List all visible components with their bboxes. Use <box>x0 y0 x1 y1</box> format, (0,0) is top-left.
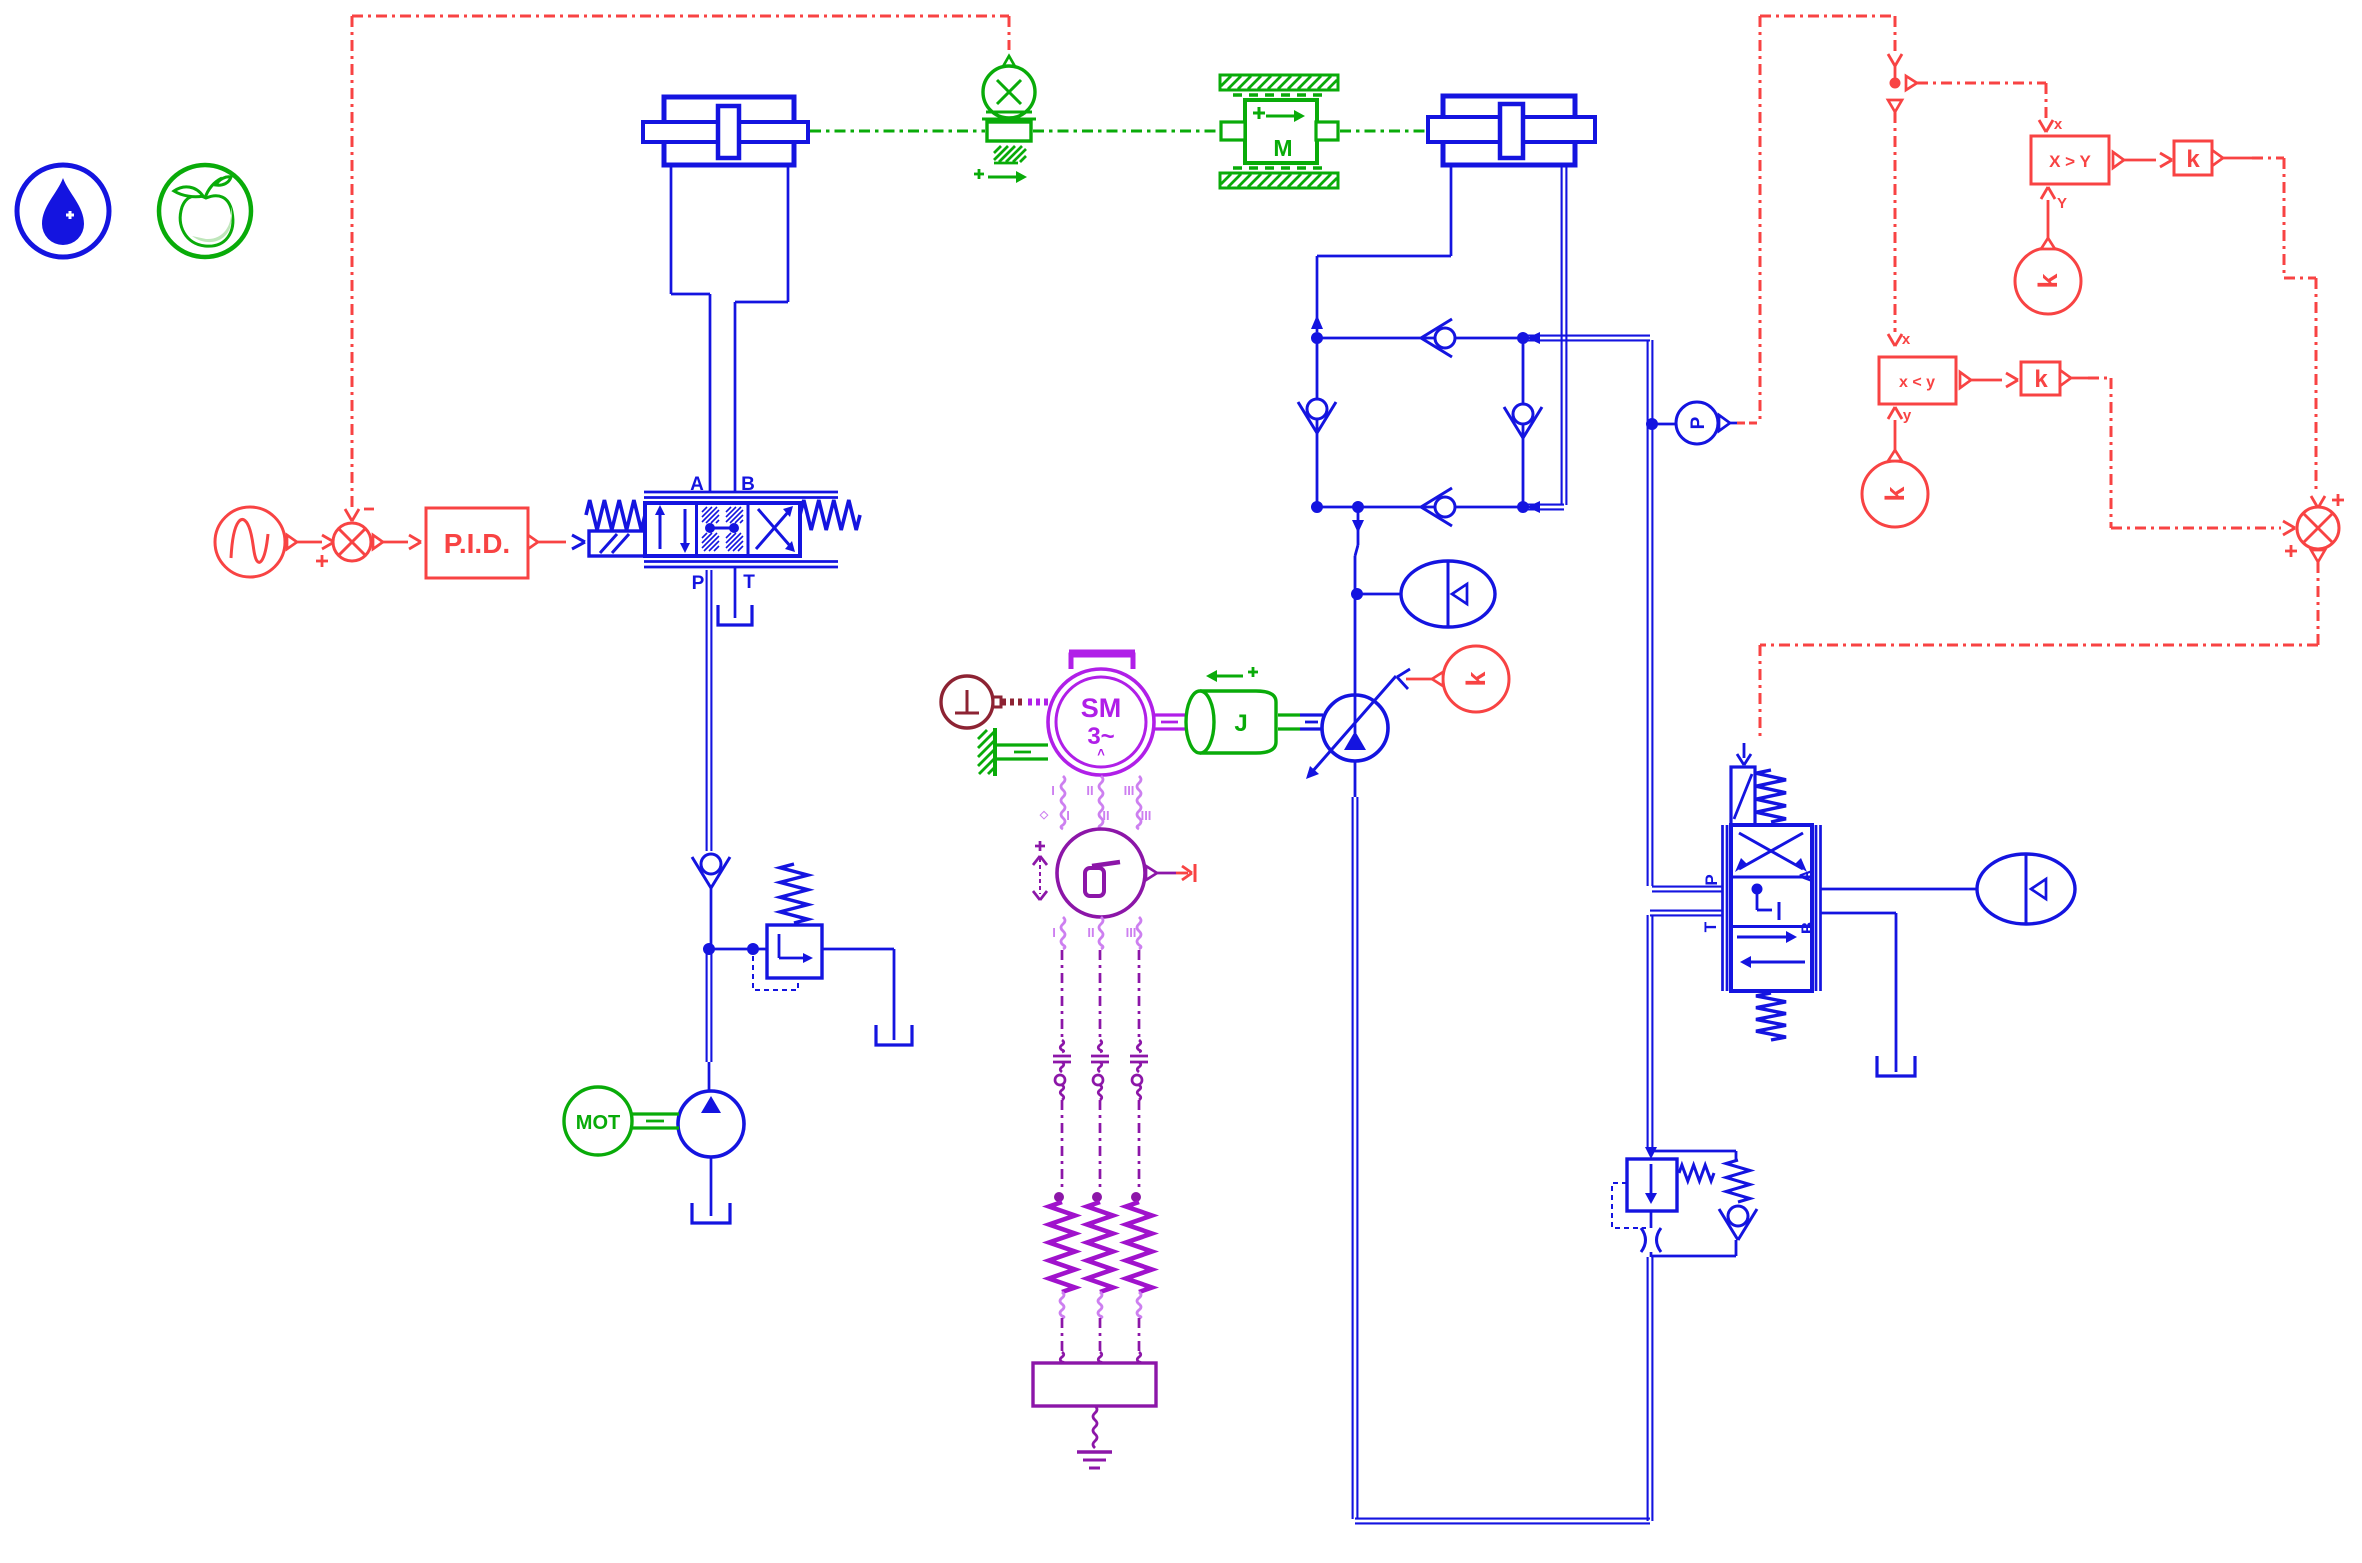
pump P1 (fixed displacement) <box>678 1091 744 1157</box>
tank at servo valve T port <box>718 605 752 625</box>
inertia J <box>1200 691 1276 753</box>
svg-text:I: I <box>1066 808 1070 823</box>
breaker 1 <box>1060 1040 1064 1052</box>
svg-text:SM: SM <box>1081 693 1122 723</box>
junction node pump outlet <box>704 944 715 955</box>
svg-text:˄: ˄ <box>1097 745 1105 760</box>
constant k source K2 <box>2015 248 2081 314</box>
svg-text:k: k <box>2186 146 2200 173</box>
wire K3 to y input <box>1894 420 1897 450</box>
wire feedback into summer (arrow) <box>345 509 352 521</box>
svg-text:P: P <box>1702 874 1721 885</box>
servo valve centre cell (closed centre) <box>702 507 707 512</box>
pipe pump bottom (double) <box>1354 761 1357 797</box>
phase dash 1 to breaker <box>1061 950 1064 1040</box>
svg-text:III: III <box>1126 925 1137 940</box>
pipe P port prop valve <box>1652 886 1722 888</box>
orifice (variable restrictor) <box>1641 1228 1646 1252</box>
check valve CV1 above pump <box>692 857 711 888</box>
port triangle junction down <box>1888 100 1902 112</box>
cylinder C1 chamber outline <box>670 165 673 294</box>
pipe junction down to pump (double) <box>706 952 708 1062</box>
plus sign at summer input <box>316 560 328 563</box>
wire feedback dash drop to sensor <box>1008 16 1011 50</box>
accumulator ACC1 <box>1401 561 1495 627</box>
pipe cylinder C2 B-side (double) <box>1561 165 1563 505</box>
svg-text:III: III <box>1124 783 1135 798</box>
accumulator ACC2 <box>1977 854 2075 924</box>
tank at relief valve outlet <box>876 1025 912 1045</box>
shaft motor to inertia <box>1154 713 1186 716</box>
mass M right port <box>1316 122 1338 140</box>
check valve CVb bottom rail <box>1421 488 1452 507</box>
torque sensor (maroon) <box>941 676 993 728</box>
wire bridge to variable pump <box>1357 507 1360 545</box>
node bridge top-left <box>1312 333 1323 344</box>
cylinder C2 chamber outline A-side <box>1450 165 1453 256</box>
resistor R1 <box>1055 1193 1064 1202</box>
comparator x<y box <box>1879 357 1956 404</box>
multiplier (red) <box>2297 507 2339 549</box>
wire into pump P1 <box>708 1062 711 1092</box>
svg-text:x < y: x < y <box>1899 374 1935 391</box>
svg-text:k: k <box>1880 486 1910 502</box>
flow control valve body <box>1627 1159 1677 1211</box>
converter sigma circle <box>1057 829 1145 917</box>
mass M upper guide wall <box>1220 75 1338 90</box>
shaft dash sensor to mass <box>1033 130 1219 133</box>
port triangle PID output <box>528 535 538 549</box>
cylinder C2 barrel <box>1443 96 1575 165</box>
position sensor + direction arrow <box>974 173 984 176</box>
servo valve top rail <box>644 491 838 494</box>
gain k setting (red) for pump <box>1443 646 1509 712</box>
port triangle x<y output <box>1960 372 1971 388</box>
mass M body <box>1245 100 1317 163</box>
prop valve top spring <box>1756 770 1786 822</box>
position sensor X input triangle <box>1001 56 1017 70</box>
wire PID to servo valve <box>538 541 566 544</box>
position sensor slider <box>987 122 1031 141</box>
breaker 2 <box>1098 1040 1102 1052</box>
port triangle summer output <box>373 535 383 549</box>
port triangle k output (upper) <box>2212 150 2223 166</box>
wire X>Y to gain k <box>2124 159 2156 162</box>
wire A-line valve to cylinder1 <box>709 294 712 492</box>
minus sign at summer feedback <box>364 508 374 511</box>
gain k box (upper) <box>2174 141 2212 175</box>
port triangle sigma output <box>1146 866 1157 880</box>
relief valve RV1 pilot dashed <box>753 956 798 990</box>
direction arrow above J <box>1214 675 1243 678</box>
svg-text:B: B <box>1798 922 1817 934</box>
cylinder C1 barrel <box>664 97 794 165</box>
pipe P-line down (double) <box>706 570 708 851</box>
constant k source K3 <box>1862 461 1928 527</box>
plus sign multiplier left <box>2285 550 2297 553</box>
svg-text:P.I.D.: P.I.D. <box>444 528 510 559</box>
pipe bottom return line (double) <box>1355 1518 1650 1520</box>
pipe return riser (double) <box>1647 1257 1649 1521</box>
servo valve right cell crossed arrows <box>756 511 789 549</box>
port triangle k output <box>1432 672 1443 686</box>
wire feedback dash vertical x=352 <box>351 16 354 508</box>
wire k to pump swash <box>1406 678 1432 681</box>
bypass check valve branch <box>1651 1150 1736 1153</box>
wire sigma output to signal end <box>1157 872 1176 875</box>
port triangle multiplier output <box>2311 550 2325 562</box>
prop valve top cell crossed arrows <box>1739 833 1803 869</box>
wire k to multiplier (upper path) <box>2223 157 2252 160</box>
wire B port to tank <box>1821 912 1896 915</box>
port triangle P sensor output <box>1719 415 1730 431</box>
spring right of servo valve <box>800 500 860 530</box>
prop valve bottom spring <box>1756 993 1786 1040</box>
wire pilot arrow into prop valve <box>1743 743 1746 758</box>
mass M lower guide wall <box>1220 173 1338 188</box>
flow control inlet arrow <box>1645 1147 1657 1159</box>
check valve CVt top rail <box>1421 319 1452 338</box>
svg-text:II: II <box>1086 783 1093 798</box>
phase dash 3 to busbar <box>1138 1318 1141 1352</box>
icon mechanical (apple) badge <box>159 165 251 257</box>
solenoid box servo valve <box>589 531 645 556</box>
phase line 2 below sigma <box>1099 917 1103 949</box>
tank at pump suction <box>692 1203 730 1223</box>
wire summer to PID <box>383 541 408 544</box>
svg-text:x: x <box>1902 331 1911 348</box>
svg-text:k: k <box>1461 671 1491 687</box>
node red junction <box>1890 78 1900 88</box>
position sensor ground hatch <box>994 146 1001 153</box>
prop valve body <box>1731 825 1812 991</box>
svg-text:◇: ◇ <box>1039 809 1049 821</box>
resistor R3 <box>1132 1193 1141 1202</box>
flow control spring <box>1679 1165 1714 1181</box>
svg-text:k: k <box>2034 366 2048 393</box>
wire junction to relief valve <box>709 948 767 951</box>
summing junction J1 <box>333 523 371 561</box>
svg-text:X > Y: X > Y <box>2049 152 2091 171</box>
position sensor X circle <box>983 66 1035 118</box>
svg-text:I: I <box>1052 925 1056 940</box>
relief valve RV1 body <box>767 925 822 978</box>
synchronous motor SM top bracket <box>1071 655 1133 669</box>
ground (green) motor stator <box>993 728 997 776</box>
cylinder C1 rod <box>643 122 808 142</box>
wire A port to accumulator <box>1821 888 1977 891</box>
node bridge bottom-right <box>1518 502 1529 513</box>
servo valve body <box>645 503 800 556</box>
phase line 1 below sigma <box>1061 917 1065 949</box>
busbar (neutral) box <box>1033 1363 1156 1406</box>
svg-text:T: T <box>743 572 755 593</box>
wire T-line to tank <box>734 567 737 618</box>
cylinder C1 piston <box>718 106 739 158</box>
prop valve centre cell <box>1752 884 1762 894</box>
node pressure sensor tap <box>1647 419 1658 430</box>
wire red net riser x=1760 <box>1759 16 1762 421</box>
node pump riser <box>1353 502 1364 513</box>
svg-text:Y: Y <box>2057 195 2067 212</box>
prop valve bottom cell arrows <box>1737 936 1788 939</box>
servo valve left cell arrows <box>659 513 662 549</box>
wire bridge top rail <box>1317 337 1523 340</box>
svg-text:II: II <box>1102 808 1109 823</box>
phase line 3 motor to converter <box>1137 776 1141 829</box>
port triangle K2 output <box>2041 238 2055 249</box>
wire multiplier to valve pilot <box>2317 562 2320 645</box>
node bridge bottom-left <box>1312 502 1323 513</box>
servo valve bottom rail <box>644 560 838 563</box>
breaker 3 <box>1137 1040 1141 1052</box>
svg-text:T: T <box>1701 921 1720 932</box>
icon hydraulic (water drop) badge <box>17 165 109 257</box>
wire sine to summer <box>297 541 322 544</box>
svg-text:A: A <box>690 474 704 495</box>
svg-text:I: I <box>1051 783 1055 798</box>
phase dash 1 to busbar <box>1061 1318 1064 1352</box>
svg-text:x: x <box>2054 116 2063 133</box>
port triangle k output (lower) <box>2060 370 2071 386</box>
spring left of servo valve <box>586 500 645 530</box>
wire bridge bottom rail <box>1317 506 1523 509</box>
flow control pilot dashed <box>1612 1183 1646 1228</box>
svg-text:y: y <box>1903 407 1912 424</box>
signal source (sine) W1 <box>215 507 285 577</box>
svg-text:II: II <box>1087 925 1094 940</box>
wire K2 to Y input <box>2047 200 2050 238</box>
mass M left port <box>1221 122 1245 140</box>
wire pump suction <box>710 1157 713 1216</box>
electrical ground symbol <box>1077 1450 1112 1453</box>
wire red net drop to junction <box>1894 16 1897 52</box>
electric motor MOT <box>564 1087 632 1155</box>
phase dash 3 to breaker <box>1138 950 1141 1040</box>
check valve CVl left branch <box>1298 402 1317 433</box>
wire P sensor to red net <box>1730 422 1737 425</box>
controller P.I.D. box <box>426 508 528 578</box>
plus sign multiplier top <box>2332 499 2344 502</box>
wire bridge left branch <box>1316 338 1319 507</box>
shaft dashed sensor to motor <box>1002 699 1026 706</box>
displacement indicator beside sigma <box>1035 845 1045 848</box>
node accumulator tee <box>1352 589 1363 600</box>
pipe T port prop valve <box>1650 910 1722 912</box>
phase dash 2 to breaker <box>1099 950 1102 1040</box>
prop valve right rail <box>1815 825 1818 991</box>
tank at prop valve B port <box>1877 1056 1915 1076</box>
prop valve left rail <box>1721 825 1724 991</box>
shaft J to variable pump <box>1278 713 1300 716</box>
gain k box (lower) <box>2021 362 2060 395</box>
port triangle sine output <box>287 535 297 549</box>
mass M sliding contact dashes <box>1233 93 1325 96</box>
port triangle K3 output <box>1888 450 1902 461</box>
check valve CVm middle branch <box>1504 407 1523 438</box>
svg-text:B: B <box>741 474 755 495</box>
position sensor mounting bars <box>986 111 1032 114</box>
wire bridge middle branch <box>1522 338 1525 507</box>
svg-text:III: III <box>1141 808 1152 823</box>
prop valve solenoid box <box>1731 767 1755 825</box>
wire busbar to ground <box>1093 1406 1097 1448</box>
svg-text:P: P <box>692 573 705 594</box>
wire tee to accumulator <box>1357 593 1402 596</box>
wire x<y to gain k <box>1971 379 2002 382</box>
wire relief valve to tank <box>822 948 894 951</box>
cylinder C2 piston <box>1500 104 1523 158</box>
phase dash 1 to resistor <box>1061 1100 1064 1192</box>
resistor R2 <box>1093 1193 1102 1202</box>
wire junction to x-input x<y <box>1894 112 1897 332</box>
shaft dash cylinder1 to sensor <box>810 130 985 133</box>
shaft dash mass to cylinder2 <box>1340 130 1426 133</box>
phase dash 3 to resistor <box>1138 1100 1141 1192</box>
svg-text:M: M <box>1273 135 1292 161</box>
port triangle X>Y output <box>2113 152 2124 168</box>
port triangle junction right <box>1906 76 1917 90</box>
wire junction to x-input X>Y <box>1917 82 2046 85</box>
wire red net top y=16 <box>1760 15 1895 18</box>
phase dash 2 to busbar <box>1099 1318 1102 1352</box>
shaft MOT to pump <box>632 1112 679 1115</box>
phase line 2 motor to converter <box>1099 776 1103 829</box>
phase line 3 below sigma <box>1137 917 1141 949</box>
svg-text:k: k <box>2033 273 2063 289</box>
pressure sensor P <box>1676 402 1718 444</box>
relief valve RV1 spring <box>780 864 808 923</box>
svg-text:P: P <box>1688 416 1709 429</box>
comparator X>Y box <box>2031 136 2109 184</box>
phase line 1 motor to converter <box>1061 776 1065 829</box>
cylinder C2 rod <box>1428 117 1595 142</box>
wire feedback dash horizontal y=16 <box>352 15 1009 18</box>
wire k to multiplier (lower path) <box>2071 377 2088 380</box>
wire B-line valve to cylinder1 <box>734 302 737 492</box>
svg-text:A: A <box>1796 870 1815 882</box>
variable displacement pump VP <box>1322 695 1388 761</box>
phase dash 2 to resistor <box>1099 1100 1102 1192</box>
pipe bridge to P-feed (double) <box>1525 335 1650 337</box>
svg-text:J: J <box>1234 710 1247 737</box>
node bridge top-right <box>1518 333 1529 344</box>
synchronous motor SM 3~ <box>1048 669 1154 775</box>
svg-text:MOT: MOT <box>576 1112 620 1134</box>
